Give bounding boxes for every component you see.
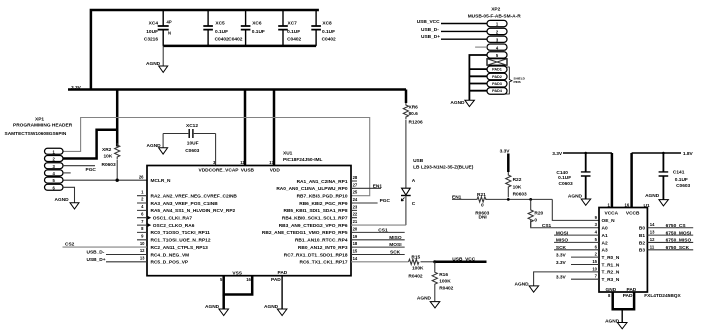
XU1 left pin names [151, 178, 238, 266]
svg-text:AGND: AGND [515, 281, 530, 287]
resistor R16 100K to ground [432, 262, 453, 301]
wire XP1 pin6 to ground [63, 187, 75, 202]
svg-text:XP2: XP2 [491, 7, 500, 13]
svg-text:AGND: AGND [645, 193, 660, 199]
wire AGND to U1 T_R2_N [515, 272, 600, 292]
XU1 right pin names [262, 179, 348, 266]
svg-text:C: C [412, 201, 416, 207]
svg-text:R15: R15 [411, 254, 420, 260]
wire SCK stub pin15 [351, 250, 405, 256]
capacitor XC6 [241, 10, 265, 46]
svg-text:PAD: PAD [278, 270, 288, 276]
svg-text:PROGRAMMING HEADER: PROGRAMMING HEADER [13, 123, 73, 129]
svg-text:22: 22 [353, 212, 358, 217]
svg-text:20: 20 [353, 226, 358, 231]
svg-text:0.1UF: 0.1UF [675, 177, 688, 183]
svg-text:26: 26 [139, 174, 144, 179]
node junction EN1/R20 [529, 198, 532, 201]
svg-text:A3: A3 [602, 248, 608, 254]
svg-text:XR6: XR6 [409, 104, 419, 110]
svg-text:RA3_AN3_VREF_POS_C1INB: RA3_AN3_VREF_POS_C1INB [151, 201, 219, 207]
wire CS1 from R20 to U1 A0 [531, 220, 599, 229]
capacitor XC12 [163, 123, 216, 154]
svg-text:3.3V: 3.3V [556, 252, 567, 258]
ground AGND XC4 [146, 46, 168, 73]
svg-text:USB_D+: USB_D+ [87, 257, 106, 263]
level shifter U1 FXL4TD245 [599, 203, 682, 299]
svg-text:XR2: XR2 [102, 147, 112, 153]
wire EN1 net to R21 [452, 194, 476, 200]
svg-text:VCCB: VCCB [626, 210, 640, 216]
svg-text:AGND: AGND [450, 100, 465, 106]
svg-text:RB4_KBI0_SCK1_SCL1_RP7: RB4_KBI0_SCK1_SCL1_RP7 [282, 216, 348, 222]
wire PGC stub pin24 [351, 198, 391, 204]
LED USB blue [401, 158, 474, 207]
svg-text:B2: B2 [639, 240, 645, 246]
wire XC12 to VDDCORE pin3 [215, 134, 217, 166]
XP2 shield X box [487, 59, 507, 65]
wire 6750_SCK from U1 B3 [647, 245, 693, 251]
XU1 left pin stubs [137, 196, 147, 240]
svg-text:0: 0 [534, 217, 537, 223]
svg-text:19: 19 [353, 234, 358, 239]
svg-text:B3: B3 [639, 248, 645, 254]
wire 3.3V drop to VDD pin17 [273, 90, 276, 166]
capacitor XC4 [144, 10, 172, 46]
svg-text:RC5_D_POS_VP: RC5_D_POS_VP [151, 260, 189, 266]
svg-text:10UF: 10UF [146, 29, 158, 35]
svg-text:15: 15 [353, 249, 358, 254]
resistor XR2 [102, 143, 120, 168]
resistor R15 100K [408, 254, 434, 279]
svg-text:0.1UF: 0.1UF [558, 175, 571, 181]
svg-text:RB7_KBI3_PGD_RP10: RB7_KBI3_PGD_RP10 [297, 194, 348, 200]
svg-text:10K: 10K [104, 153, 113, 159]
svg-text:0.1UF: 0.1UF [252, 29, 265, 35]
svg-text:VCCA: VCCA [605, 210, 619, 216]
svg-text:27: 27 [353, 182, 358, 187]
svg-text:B0: B0 [639, 226, 645, 232]
svg-text:RB6_KBI2_PGC_RP9: RB6_KBI2_PGC_RP9 [299, 201, 348, 207]
wire 3.3V drop to VUSB pin11 [244, 90, 247, 166]
svg-text:VDDCORE_VCAP: VDDCORE_VCAP [199, 168, 240, 174]
wire CS2 net to pin10 [63, 242, 148, 248]
svg-text:PIC18F24J50-IML: PIC18F24J50-IML [283, 157, 323, 163]
svg-text:3.3V: 3.3V [552, 151, 563, 157]
svg-text:3.3V: 3.3V [556, 260, 567, 266]
svg-text:RC7_RX1_DT1_SDO1_RP18: RC7_RX1_DT1_SDO1_RP18 [284, 252, 348, 258]
svg-text:U1: U1 [644, 203, 650, 209]
svg-text:C141: C141 [673, 169, 685, 175]
wire 3.3V to U1 T_R1_N [556, 260, 599, 266]
svg-text:28: 28 [353, 175, 358, 180]
capacitor C141 [659, 152, 691, 200]
svg-text:R1206: R1206 [409, 119, 423, 125]
svg-text:PAD: PAD [623, 293, 633, 299]
node 1.8V at U1 VCCB [625, 151, 694, 208]
wire 6750_MOSI from U1 B1 [647, 230, 693, 236]
U1 GND and PAD to ground [605, 292, 634, 329]
wire MISO stub pin19 [351, 235, 405, 241]
svg-text:16: 16 [625, 202, 630, 207]
svg-text:PGC: PGC [380, 198, 391, 204]
svg-text:PAD1: PAD1 [492, 68, 502, 72]
svg-text:100K: 100K [439, 279, 451, 285]
svg-text:R22: R22 [513, 177, 522, 183]
svg-text:23: 23 [353, 204, 358, 209]
svg-text:A: A [412, 178, 416, 184]
wire LED cathode to pin21 [405, 196, 407, 226]
svg-text:13: 13 [650, 230, 655, 235]
svg-text:12: 12 [650, 237, 655, 242]
svg-text:VUSB: VUSB [241, 168, 255, 174]
svg-text:MUSB-05-F-AB-SM-A-R: MUSB-05-F-AB-SM-A-R [468, 14, 522, 20]
svg-text:R0402: R0402 [408, 273, 422, 279]
svg-text:XC12: XC12 [186, 123, 198, 129]
XU1 PAD pin to ground [264, 276, 287, 316]
svg-text:PAD: PAD [627, 287, 637, 293]
svg-text:XC4: XC4 [149, 21, 159, 27]
svg-text:80.6: 80.6 [409, 111, 419, 117]
svg-text:RB1_AN10_RTCC_RP4: RB1_AN10_RTCC_RP4 [295, 238, 348, 244]
wire bottom cap bus [163, 45, 316, 48]
svg-text:13: 13 [140, 256, 145, 261]
svg-text:1.8V: 1.8V [683, 151, 694, 157]
svg-text:T_R2_N: T_R2_N [602, 270, 620, 276]
svg-text:R20: R20 [534, 210, 543, 216]
svg-text:RB0_AN12_INT0_RP3: RB0_AN12_INT0_RP3 [298, 245, 348, 251]
svg-text:PAD: PAD [271, 277, 281, 283]
capacitor XC7 [278, 10, 301, 46]
svg-text:C0402: C0402 [287, 37, 301, 43]
svg-text:0.1UF: 0.1UF [287, 29, 300, 35]
svg-text:OE_N: OE_N [602, 218, 616, 224]
svg-text:C0603: C0603 [559, 181, 573, 187]
XP2 PAD pins [487, 66, 507, 94]
svg-text:18: 18 [353, 241, 358, 246]
XU1 right short stubs pins 28,23,22 [351, 181, 357, 218]
svg-text:T_R1_N: T_R1_N [602, 262, 620, 268]
wire CS1 stub pin20 [351, 227, 405, 233]
svg-text:USB_D+: USB_D+ [421, 34, 440, 40]
wire XP1 pin4 stub [63, 172, 71, 174]
svg-text:AGND: AGND [264, 304, 279, 310]
wire 3.3V to U1 T_R3_N [556, 275, 599, 281]
svg-text:OSC1_CLKI_RA7: OSC1_CLKI_RA7 [153, 216, 193, 222]
svg-text:RC4_D_NEG_VM: RC4_D_NEG_VM [151, 252, 190, 258]
svg-text:RC6_TX1_CK1_RP17: RC6_TX1_CK1_RP17 [300, 260, 348, 266]
U1 right pin names [639, 226, 645, 254]
U1 left pin names [602, 218, 620, 283]
svg-text:PGC: PGC [86, 167, 97, 173]
wire 3.3V to U1 T_R0_N [556, 252, 599, 258]
wire MCLR net XP1 pin5 to XU1 pin26 [63, 179, 147, 181]
svg-text:RA5_AN4_SS1_N_HLVDIN_RCV_RP2: RA5_AN4_SS1_N_HLVDIN_RCV_RP2 [151, 208, 236, 214]
svg-text:C0402: C0402 [322, 37, 336, 43]
U1 right pin numbers [650, 222, 655, 249]
svg-text:OSC2_CLKO_RA6: OSC2_CLKO_RA6 [153, 223, 195, 229]
wire MOSI to U1 A1 [554, 230, 599, 236]
capacitor C140 [556, 152, 590, 199]
svg-text:10: 10 [140, 241, 145, 246]
wire SCK to U1 A3 [554, 245, 599, 251]
svg-text:VSS: VSS [232, 270, 242, 276]
svg-text:0: 0 [481, 202, 484, 208]
MCU XU1 PIC18F24J50 [147, 151, 351, 277]
ground AGND C141 [645, 193, 668, 206]
wire XR6 to LED anode [405, 120, 407, 189]
svg-text:11: 11 [240, 160, 245, 165]
node 3.3V rail [68, 85, 406, 91]
svg-text:R16: R16 [439, 272, 448, 278]
svg-text:XC7: XC7 [288, 21, 298, 27]
wire USB_VCC net [435, 256, 487, 262]
svg-text:24: 24 [353, 197, 358, 202]
svg-text:GND: GND [606, 287, 617, 293]
svg-text:RB5_KBI1_SDI1_SDA1_RP8: RB5_KBI1_SDI1_SDA1_RP8 [284, 208, 348, 214]
U1 left pin numbers [592, 215, 597, 279]
svg-text:R0603: R0603 [513, 191, 527, 197]
wire USB_VCC to XP2 pin1 [417, 19, 487, 25]
svg-text:21: 21 [353, 219, 358, 224]
wire 3.3V drop to XR2 [116, 90, 119, 147]
node junction R15/R16/USB_VCC [433, 260, 436, 263]
svg-text:RA2_AN2_VREF_NEG_CVREF_C2INB: RA2_AN2_VREF_NEG_CVREF_C2INB [151, 194, 238, 200]
svg-text:25: 25 [353, 190, 358, 195]
svg-text:XC8: XC8 [322, 21, 332, 27]
pin marker OSC2 clock arrow [148, 223, 152, 227]
svg-text:AGND: AGND [147, 143, 162, 149]
pin marker OSC1 clock arrow [148, 216, 152, 220]
svg-text:A0: A0 [602, 226, 608, 232]
svg-text:SAMTECTSW10608GS6PIN: SAMTECTSW10608GS6PIN [5, 131, 67, 137]
svg-text:R0603: R0603 [102, 162, 116, 168]
svg-text:100K: 100K [412, 266, 424, 272]
svg-text:RA0_AN0_C1INA_ULPWU_RP0: RA0_AN0_C1INA_ULPWU_RP0 [276, 186, 348, 192]
svg-text:LB L293-N1N2-35-Z(BLUE): LB L293-N1N2-35-Z(BLUE) [413, 165, 474, 171]
svg-text:RC0_T1OSO_T1CKI_RP11: RC0_T1OSO_T1CKI_RP11 [151, 230, 211, 236]
svg-text:RA1_AN1_C2INA_RP1: RA1_AN1_C2INA_RP1 [297, 179, 348, 185]
svg-text:RB2_AN8_CTEDG1_VMO_REFO_RP5: RB2_AN8_CTEDG1_VMO_REFO_RP5 [262, 230, 348, 236]
svg-text:USB_D-: USB_D- [87, 250, 105, 256]
wire XP2 pin5 and pads to ground [450, 55, 487, 107]
svg-text:A2: A2 [602, 240, 608, 246]
ground AGND C140 [568, 194, 591, 206]
resistor R21 0 ohm DNI [475, 192, 552, 221]
svg-text:XC5: XC5 [215, 21, 225, 27]
svg-text:C140: C140 [556, 170, 568, 176]
svg-text:14: 14 [650, 222, 655, 227]
wire XP1 pin2 3.3V tap [63, 130, 117, 159]
svg-text:PAD2: PAD2 [492, 75, 502, 79]
node 3.3V at U1 VCCA [552, 151, 612, 208]
svg-text:RB3_AN9_CTEDG2_VPO_RP6: RB3_AN9_CTEDG2_VPO_RP6 [279, 223, 348, 229]
svg-text:FXL4TD245BQX: FXL4TD245BQX [644, 293, 681, 299]
svg-text:4P: 4P [167, 19, 172, 24]
svg-text:AGND: AGND [205, 304, 220, 310]
XU1 left pin numbers [139, 174, 145, 260]
svg-text:0.1UF: 0.1UF [215, 29, 228, 35]
svg-text:RC1_T1OSI_UOE_N_RP12: RC1_T1OSI_UOE_N_RP12 [151, 238, 211, 244]
wire USB_D+ to XP2 pin3 [421, 34, 487, 40]
svg-text:VDD: VDD [270, 168, 281, 174]
connector XP1 programming header [5, 116, 73, 190]
svg-text:N: N [168, 31, 171, 36]
wire 3.3V to XR6 [405, 90, 408, 104]
wire 6750_MISO from U1 B2 [647, 238, 693, 244]
svg-text:USB_D-: USB_D- [421, 27, 439, 33]
svg-text:17: 17 [269, 160, 274, 165]
wire pin14 to R15 [351, 261, 409, 263]
svg-text:C0402: C0402 [215, 37, 229, 43]
svg-text:12: 12 [140, 248, 145, 253]
svg-text:3.3V: 3.3V [556, 275, 567, 281]
svg-text:C0603: C0603 [185, 148, 199, 154]
XU1 right pin numbers [353, 175, 358, 261]
wire EN1 to U1 OE_N [552, 199, 599, 220]
svg-text:A1: A1 [602, 233, 608, 239]
wire USB_D- to pin12 [87, 250, 148, 256]
svg-text:R0402: R0402 [439, 285, 453, 291]
svg-text:R21: R21 [477, 192, 486, 198]
svg-text:C0402: C0402 [228, 37, 242, 43]
svg-text:B1: B1 [639, 233, 645, 239]
ground AGND R16 [417, 295, 440, 308]
svg-text:AGND: AGND [568, 194, 583, 200]
node junction MCLR/XR2 [116, 179, 119, 182]
svg-text:RC2_AN11_CTPLS_RP13: RC2_AN11_CTPLS_RP13 [151, 245, 209, 251]
svg-text:XC6: XC6 [252, 21, 262, 27]
ground AGND XP1 [55, 197, 80, 209]
svg-text:T_R0_N: T_R0_N [602, 255, 620, 261]
svg-text:10: 10 [592, 266, 597, 271]
svg-text:PINS: PINS [514, 80, 521, 84]
svg-text:AGND: AGND [146, 61, 161, 67]
svg-text:C0603: C0603 [676, 183, 690, 189]
svg-text:XP1: XP1 [35, 116, 44, 122]
capacitor XC5 [203, 10, 242, 46]
svg-text:XU1: XU1 [283, 151, 293, 157]
wire top cap bus [91, 10, 319, 90]
svg-text:AGND: AGND [605, 318, 620, 324]
capacitor XC8 [311, 10, 336, 46]
svg-text:USB: USB [413, 158, 424, 164]
connector XP2 USB [468, 7, 522, 59]
wire PGD gray route XP1 pin1 to XU1 pin25 [63, 118, 370, 196]
wire USB_D- to XP2 pin2 [421, 27, 487, 33]
svg-text:T_R3_N: T_R3_N [602, 277, 620, 283]
resistor R20 0 ohm [528, 199, 543, 227]
resistor R22 10K pullup [500, 148, 527, 197]
wire XP1 pin3 PGC stub [63, 166, 96, 174]
resistor XR6 [403, 103, 423, 125]
node junction EN1/R22 [507, 198, 510, 201]
svg-text:AGND: AGND [417, 295, 432, 301]
wire MOSI stub pin18 [351, 242, 405, 248]
wire XR2 to MCLR [116, 160, 118, 181]
svg-text:10UF: 10UF [187, 141, 199, 147]
svg-text:0.1UF: 0.1UF [322, 29, 335, 35]
svg-text:C3216: C3216 [144, 37, 158, 43]
svg-text:16: 16 [246, 277, 251, 282]
wire 6750_CS from U1 B0 [647, 223, 693, 229]
svg-text:PAD4: PAD4 [492, 89, 503, 93]
svg-text:USB_VCC: USB_VCC [417, 19, 440, 25]
svg-text:PAD3: PAD3 [492, 82, 502, 86]
svg-text:10K: 10K [513, 184, 522, 190]
svg-text:14: 14 [353, 256, 358, 261]
svg-text:DNI: DNI [479, 215, 488, 221]
wire EN1 stub pin27 [351, 183, 382, 189]
brace shield pins [506, 67, 526, 94]
svg-text:AGND: AGND [55, 197, 70, 203]
wire XP2 pin4 stub [475, 46, 487, 48]
XU1 VSS pins 5,16 to ground [205, 276, 252, 316]
wire MISO to U1 A2 [554, 238, 599, 244]
svg-text:MCLR_N: MCLR_N [151, 178, 172, 184]
svg-text:11: 11 [650, 244, 655, 249]
svg-text:15: 15 [592, 259, 597, 264]
ground AGND XC12 [147, 134, 168, 155]
wire USB_D+ to pin13 [87, 257, 148, 263]
